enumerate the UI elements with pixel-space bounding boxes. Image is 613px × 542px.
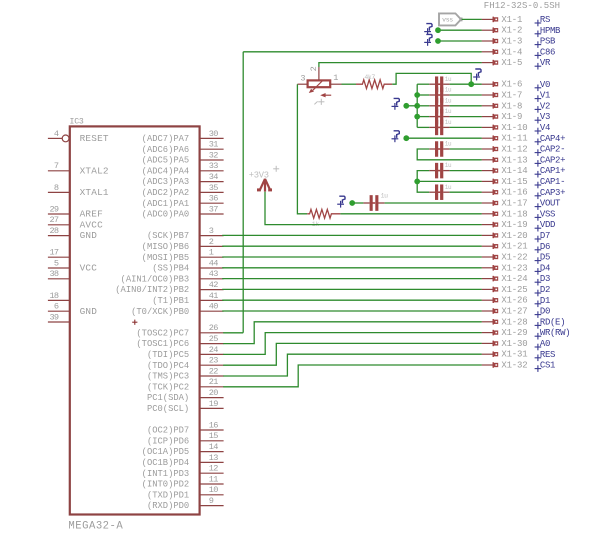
capacitor C8 (CAP3) — [429, 191, 435, 193]
net label CAP4+ on X1-11 — [535, 139, 542, 146]
IC3 right pin 2 (MISO)PB6 — [200, 245, 224, 247]
wire X1-1 RS net — [462, 18, 482, 20]
net label CAP2+ on X1-13 — [535, 160, 542, 167]
wire V2 cap to X1-8 — [450, 105, 482, 107]
svg-text:20: 20 — [209, 388, 218, 398]
svg-text:2: 2 — [309, 66, 319, 71]
capacitor C5 (V4) — [429, 126, 435, 128]
connector pin X1-28 — [482, 319, 499, 325]
net label A0 on X1-30 — [535, 344, 542, 351]
node VOUT wire-end dot — [349, 200, 355, 206]
connector pin X1-20 — [482, 233, 499, 239]
svg-text:(ADC6)PA6: (ADC6)PA6 — [142, 145, 190, 155]
wire bus stub with label — [406, 105, 417, 107]
pot pin 3 — [297, 83, 307, 85]
wire V4 cap to X1-10 — [450, 126, 482, 128]
svg-text:D0: D0 — [540, 307, 550, 317]
svg-text:1u: 1u — [445, 87, 452, 94]
svg-text:(RXD)PD0: (RXD)PD0 — [147, 501, 189, 511]
connector pin X1-1 — [482, 17, 499, 23]
wire cap C5 left lead — [417, 126, 429, 128]
wire CAP3+ to X1-16 — [450, 191, 482, 193]
svg-text:RS: RS — [540, 15, 550, 25]
svg-text:(MISO)PB6: (MISO)PB6 — [142, 242, 190, 252]
net label V4 on X1-10 — [535, 128, 542, 135]
svg-text:(ADC3)PA3: (ADC3)PA3 — [142, 177, 190, 187]
svg-text:23: 23 — [209, 356, 218, 366]
connector pin X1-4 — [482, 49, 499, 55]
svg-text:21: 21 — [209, 377, 218, 387]
net label D2 on X1-25 — [535, 290, 542, 297]
wire C86 to X1-4 — [243, 51, 482, 53]
svg-text:+3V3: +3V3 — [249, 170, 269, 180]
connector pin X1-22 — [482, 254, 499, 260]
svg-text:22: 22 — [209, 366, 218, 376]
svg-text:CAP2+: CAP2+ — [540, 155, 565, 165]
svg-text:A0: A0 — [540, 339, 550, 349]
svg-text:D2: D2 — [540, 285, 550, 295]
IC3 left pin 5 VCC — [48, 267, 70, 269]
net label V2 on X1-8 — [535, 106, 542, 113]
pot gray origin cross — [314, 99, 324, 105]
IC3 right pin 33 (ADC4)PA4 — [200, 170, 224, 172]
svg-text:15: 15 — [209, 431, 218, 441]
svg-text:39: 39 — [49, 312, 58, 322]
connector pin X1-3 — [482, 38, 499, 44]
svg-text:VCC: VCC — [80, 263, 98, 274]
svg-text:42: 42 — [209, 280, 218, 290]
svg-text:IC3: IC3 — [70, 117, 84, 126]
svg-text:36: 36 — [209, 194, 218, 204]
capacitor C4 (V3) — [429, 116, 435, 118]
svg-text:VSS: VSS — [540, 209, 555, 219]
supply symbol +3V3 — [260, 179, 271, 192]
wire D0 PB0 to X1-27 — [222, 310, 482, 312]
wire cap C4 left lead — [417, 116, 429, 118]
net label CAP1+ on X1-14 — [535, 171, 542, 178]
connector pin X1-32 — [482, 362, 499, 368]
IC3 right pin 34 (ADC3)PA3 — [200, 181, 224, 183]
svg-text:37: 37 — [209, 204, 218, 214]
IC3 left pin 7 XTAL2 — [48, 170, 70, 172]
IC3 left pin 6 GND — [48, 310, 70, 312]
svg-text:X1-18: X1-18 — [501, 209, 527, 219]
IC3 right pin 12 (INT1)PD3 — [200, 472, 224, 474]
svg-text:1u: 1u — [445, 97, 452, 104]
IC U1 MEGA32-A body — [70, 126, 200, 514]
svg-text:43: 43 — [209, 269, 218, 279]
IC3 right pin 20 PC1(SDA) — [200, 397, 224, 399]
pot adjust arrow — [323, 94, 331, 96]
net label D3 on X1-24 — [535, 279, 542, 286]
wire V1 cap to X1-7 — [450, 94, 482, 96]
wire D6 PB6 to X1-21 — [222, 245, 482, 247]
svg-text:10: 10 — [209, 485, 218, 495]
svg-text:1u: 1u — [445, 108, 452, 115]
svg-text:D3: D3 — [540, 274, 550, 284]
net label CS1 on X1-32 — [535, 365, 542, 372]
connector pin X1-27 — [482, 308, 499, 314]
svg-text:4: 4 — [54, 129, 59, 139]
svg-text:D7: D7 — [540, 231, 550, 241]
svg-text:(ADC0)PA0: (ADC0)PA0 — [142, 210, 190, 220]
wire CAP1+ to X1-14 — [450, 170, 482, 172]
svg-text:2: 2 — [209, 237, 214, 247]
svg-text:X1-32: X1-32 — [501, 361, 527, 371]
svg-text:(OC1B)PD4: (OC1B)PD4 — [142, 458, 190, 468]
wire CAP2- to X1-12 — [450, 148, 482, 150]
IC3 right pin 25 (TOSC1)PC6 — [200, 343, 224, 345]
IC3 right pin 41 (T1)PB1 — [200, 299, 224, 301]
svg-text:AREF: AREF — [80, 209, 103, 220]
wire VDD +3V3 to X1-19 — [265, 192, 482, 225]
svg-text:X1-15: X1-15 — [501, 177, 527, 187]
svg-text:38: 38 — [49, 269, 58, 279]
svg-text:CAP1-: CAP1- — [540, 177, 565, 187]
svg-text:(ADC1)PA1: (ADC1)PA1 — [142, 199, 190, 209]
connector pin X1-7 — [482, 92, 499, 98]
wire cap C2 left lead — [417, 94, 429, 96]
IC3 left pin 8 XTAL1 — [48, 191, 70, 193]
net label D5 on X1-22 — [535, 257, 542, 264]
svg-text:12: 12 — [209, 464, 218, 474]
IC3 right pin 15 (ICP)PD6 — [200, 440, 224, 442]
IC3 right pin 35 (ADC2)PA2 — [200, 191, 224, 193]
svg-text:X1-8: X1-8 — [501, 101, 522, 111]
connector pin X1-12 — [482, 146, 499, 152]
wire R1 to V0 node bypass — [392, 73, 471, 84]
svg-text:31: 31 — [209, 140, 218, 150]
svg-text:1u: 1u — [445, 141, 452, 148]
IC3 right pin 23 (TDO)PC4 — [200, 364, 224, 366]
svg-text:1: 1 — [333, 73, 338, 83]
svg-text:3: 3 — [209, 226, 214, 236]
svg-text:26: 26 — [209, 323, 218, 333]
wire pot pin1 to R1 — [342, 83, 357, 85]
label ? on PSB — [424, 39, 431, 46]
svg-text:(AIN1/OC0)PB3: (AIN1/OC0)PB3 — [121, 274, 190, 284]
wire cap C3 left lead — [417, 105, 429, 107]
IC3 right pin 3 (SCK)PB7 — [200, 235, 224, 237]
svg-text:PC1(SDA): PC1(SDA) — [147, 393, 189, 403]
connector pin X1-25 — [482, 287, 499, 293]
node V0 junction — [468, 81, 474, 87]
net label VSS on X1-18 — [535, 214, 542, 221]
connector pin X1-11 — [482, 135, 499, 141]
capacitor C2 (V1) — [429, 94, 435, 96]
svg-text:41: 41 — [209, 291, 218, 301]
svg-text:V3: V3 — [540, 112, 550, 122]
wire V3 cap to X1-9 — [450, 116, 482, 118]
wire D3 PB3 to X1-24 — [222, 278, 482, 280]
connector pin X1-13 — [482, 157, 499, 163]
label ? on HPMB — [424, 28, 431, 35]
wire CAP3 elbow up to CAP1- row — [417, 181, 429, 192]
IC3 right pin 36 (ADC1)PA1 — [200, 202, 224, 204]
capacitor C7 (CAP1) — [429, 170, 435, 172]
svg-text:33: 33 — [209, 161, 218, 171]
svg-text:VOUT: VOUT — [540, 199, 561, 209]
connector pin X1-5 — [482, 60, 499, 66]
svg-text:FH12-32S-0.5SH: FH12-32S-0.5SH — [484, 1, 560, 11]
svg-text:PSB: PSB — [540, 37, 556, 47]
IC3 right pin 42 (AIN0/INT2)PB2 — [200, 289, 224, 291]
svg-text:RES: RES — [540, 350, 555, 360]
svg-text:D4: D4 — [540, 263, 550, 273]
connector pin X1-9 — [482, 114, 499, 120]
capacitor C1 (V0) — [429, 83, 435, 85]
IC3 left pin 27 AVCC — [48, 224, 70, 226]
svg-text:X1-3: X1-3 — [501, 37, 522, 47]
svg-text:X1-10: X1-10 — [501, 123, 527, 133]
net label CAP2- on X1-12 — [535, 149, 542, 156]
svg-text:XTAL2: XTAL2 — [80, 165, 109, 176]
svg-text:VDD: VDD — [540, 220, 555, 230]
svg-text:(TDI)PC5: (TDI)PC5 — [147, 350, 189, 360]
wire PC4 pin to X1-30 — [223, 343, 482, 365]
IC3 left pin 4 RESET — [48, 137, 62, 139]
svg-text:1u: 1u — [445, 119, 452, 126]
svg-text:X1-19: X1-19 — [501, 220, 527, 230]
net label D4 on X1-23 — [535, 268, 542, 275]
svg-text:CAP1+: CAP1+ — [540, 166, 565, 176]
svg-text:40: 40 — [209, 302, 218, 312]
wire CAP2+ elbow to X1-13 — [417, 149, 482, 160]
IC3 right pin 22 (TMS)PC3 — [200, 375, 224, 377]
connector pin X1-29 — [482, 330, 499, 336]
svg-text:(TDO)PC4: (TDO)PC4 — [147, 361, 189, 371]
svg-text:9: 9 — [209, 496, 214, 506]
svg-text:(TMS)PC3: (TMS)PC3 — [147, 372, 189, 382]
svg-text:1u: 1u — [445, 76, 452, 83]
svg-text:HPMB: HPMB — [540, 26, 561, 36]
svg-text:(INT1)PD3: (INT1)PD3 — [142, 469, 190, 479]
svg-text:6: 6 — [54, 302, 59, 312]
wire net PSB stub — [438, 40, 482, 42]
connector pin X1-23 — [482, 265, 499, 271]
net label C86 on X1-4 — [535, 52, 542, 59]
svg-text:4k7: 4k7 — [364, 74, 375, 81]
net label D6 on X1-21 — [535, 247, 542, 254]
wire VOUT cap to X1-17 — [385, 202, 482, 204]
svg-text:CS1: CS1 — [540, 361, 555, 371]
IC3 right pin 31 (ADC6)PA6 — [200, 148, 224, 150]
IC3 right pin 9 (RXD)PD0 — [200, 505, 224, 507]
connector pin X1-14 — [482, 168, 499, 174]
svg-text:C86: C86 — [540, 47, 555, 57]
svg-text:(ADC7)PA7: (ADC7)PA7 — [142, 134, 190, 144]
svg-text:X1-12: X1-12 — [501, 145, 527, 155]
capacitor C3 (V2) — [429, 105, 435, 107]
net label RS on X1-1 — [535, 20, 542, 27]
svg-text:(MOSI)PB5: (MOSI)PB5 — [142, 253, 190, 263]
node CAP4+ wire-end dot — [403, 135, 409, 141]
svg-text:(T0/XCK)PB0: (T0/XCK)PB0 — [131, 307, 189, 317]
svg-text:27: 27 — [49, 215, 58, 225]
svg-text:V0: V0 — [540, 80, 550, 90]
svg-text:XTAL1: XTAL1 — [80, 187, 109, 198]
net label CAP3+ on X1-16 — [535, 193, 542, 200]
connector pin X1-8 — [482, 103, 499, 109]
IC3 left pin 38 — [48, 278, 70, 280]
net label VDD on X1-19 — [535, 225, 542, 232]
svg-text:X1-21: X1-21 — [501, 242, 527, 252]
wire PC5 pin to X1-29 — [223, 333, 482, 355]
IC3 left pin 28 GND — [48, 235, 70, 237]
svg-text:7: 7 — [54, 161, 59, 171]
IC3 left pin 17 — [48, 256, 70, 258]
wire D7 PB7 to X1-20 — [222, 234, 482, 236]
IC3 origin cross — [132, 320, 137, 325]
net label WR(RW) on X1-29 — [535, 333, 542, 340]
IC3 right pin 16 (OC2)PD7 — [200, 429, 224, 431]
pot pin 2 — [318, 67, 320, 80]
svg-text:1: 1 — [209, 248, 214, 258]
svg-text:32: 32 — [209, 150, 218, 160]
svg-text:29: 29 — [49, 204, 58, 214]
svg-text:D5: D5 — [540, 253, 550, 263]
wire D4 PB4 to X1-23 — [222, 267, 482, 269]
svg-text:1u: 1u — [445, 162, 452, 169]
svg-text:44: 44 — [209, 258, 218, 268]
connector pin X1-31 — [482, 351, 499, 357]
net label VOUT on X1-17 — [535, 203, 542, 210]
svg-text:11: 11 — [209, 474, 218, 484]
IC3 right pin 26 (TOSC2)PC7 — [200, 332, 224, 334]
wire C86 riser — [242, 52, 244, 333]
connector pin X1-16 — [482, 189, 499, 195]
svg-text:D6: D6 — [540, 242, 550, 252]
label ? on V0 node — [473, 74, 480, 81]
wire pot pin3 down to R2 — [297, 84, 307, 214]
net label D7 on X1-20 — [535, 236, 542, 243]
svg-text:V1: V1 — [540, 91, 550, 101]
svg-text:30: 30 — [209, 129, 218, 139]
svg-text:V2: V2 — [540, 101, 550, 111]
svg-text:14: 14 — [209, 442, 218, 452]
connector pin X1-21 — [482, 243, 499, 249]
svg-text:(AIN0/INT2)PB2: (AIN0/INT2)PB2 — [115, 285, 189, 295]
svg-text:X1-29: X1-29 — [501, 328, 527, 338]
connector pin X1-6 — [482, 81, 499, 87]
net label RD(E) on X1-28 — [535, 322, 542, 329]
wire CAP1- elbow to X1-15 — [417, 171, 482, 182]
pot pin 1 — [330, 83, 341, 85]
IC3 right pin 1 (MOSI)PB5 — [200, 256, 224, 258]
IC3 right pin 10 (TXD)PD1 — [200, 494, 224, 496]
svg-text:X1-14: X1-14 — [501, 166, 527, 176]
connector pin X1-15 — [482, 179, 499, 185]
svg-text:RESET: RESET — [80, 133, 109, 144]
svg-text:X1-17: X1-17 — [501, 199, 527, 209]
connector pin X1-24 — [482, 276, 499, 282]
net label HPMB on X1-2 — [535, 31, 542, 38]
net label V1 on X1-7 — [535, 95, 542, 102]
svg-text:AVCC: AVCC — [80, 219, 103, 230]
svg-text:(ICP)PD6: (ICP)PD6 — [147, 436, 189, 446]
IC3 right pin 24 (TDI)PC5 — [200, 353, 224, 355]
svg-text:13: 13 — [209, 453, 218, 463]
net label RES on X1-31 — [535, 355, 542, 362]
IC3 right pin 40 (T0/XCK)PB0 — [200, 310, 224, 312]
connector pin X1-26 — [482, 297, 499, 303]
net label D1 on X1-26 — [535, 301, 542, 308]
svg-text:X1-11: X1-11 — [501, 134, 527, 144]
svg-text:(TXD)PD1: (TXD)PD1 — [147, 490, 189, 500]
svg-text:PC0(SCL): PC0(SCL) — [147, 404, 189, 414]
svg-text:GND: GND — [80, 306, 98, 317]
svg-text:X1-23: X1-23 — [501, 263, 527, 273]
svg-text:CAP3+: CAP3+ — [540, 188, 565, 198]
connector pin X1-2 — [482, 27, 499, 33]
wire CAP4+ stub to X1-11 — [406, 137, 481, 139]
svg-text:X1-20: X1-20 — [501, 231, 527, 241]
svg-text:X1-22: X1-22 — [501, 253, 527, 263]
svg-text:(TCK)PC2: (TCK)PC2 — [147, 382, 189, 392]
svg-text:(ADC2)PA2: (ADC2)PA2 — [142, 188, 190, 198]
svg-text:(SCK)PB7: (SCK)PB7 — [147, 231, 189, 241]
IC3 right pin 37 (ADC0)PA0 — [200, 213, 224, 215]
IC3 right pin 30 (ADC7)PA7 — [200, 137, 224, 139]
wire V0 cap to X1-6 — [450, 83, 482, 85]
label ? on cap bus — [392, 103, 399, 110]
net label CAP1- on X1-15 — [535, 182, 542, 189]
wire PC3 pin to X1-31 — [223, 354, 482, 376]
wire PC7 to riser — [223, 332, 243, 334]
wire VOUT stub from dot — [352, 202, 363, 204]
svg-text:16: 16 — [209, 420, 218, 430]
connector pin X1-18 — [482, 211, 499, 217]
svg-text:25: 25 — [209, 334, 218, 344]
wire PC6 pin to X1-28 — [223, 322, 482, 344]
svg-text:8: 8 — [54, 183, 59, 193]
connector pin X1-17 — [482, 200, 499, 206]
svg-text:X1-31: X1-31 — [501, 350, 527, 360]
wire VR pot wiper to X1-5 — [319, 63, 482, 67]
IC3 right pin 13 (OC1B)PD4 — [200, 461, 224, 463]
svg-text:3: 3 — [300, 73, 305, 83]
wire cap C1 left lead — [417, 83, 429, 85]
IC3 right pin 44 (SS)PB4 — [200, 267, 224, 269]
node PSB wire-end dot — [435, 38, 441, 44]
svg-text:X1-25: X1-25 — [501, 285, 527, 295]
svg-text:34: 34 — [209, 172, 218, 182]
svg-text:V4: V4 — [540, 123, 550, 133]
svg-text:X1-16: X1-16 — [501, 188, 527, 198]
IC3 left pin 18 — [48, 299, 70, 301]
wire D5 PB5 to X1-22 — [222, 256, 482, 258]
svg-text:X1-28: X1-28 — [501, 317, 527, 327]
wire cap bus vertical — [416, 84, 418, 127]
svg-text:(SS)PB4: (SS)PB4 — [152, 264, 189, 274]
svg-text:35: 35 — [209, 183, 218, 193]
svg-text:(ADC5)PA5: (ADC5)PA5 — [142, 156, 190, 166]
IC3 right pin 32 (ADC5)PA5 — [200, 159, 224, 161]
svg-text:GND: GND — [80, 230, 98, 241]
svg-text:18: 18 — [49, 291, 58, 301]
svg-text:X1-4: X1-4 — [501, 47, 522, 57]
svg-text:X1-7: X1-7 — [501, 91, 522, 101]
svg-text:1u: 1u — [381, 192, 389, 199]
connector pin X1-19 — [482, 222, 499, 228]
pot wiper arrow — [313, 81, 322, 90]
svg-text:WR(RW): WR(RW) — [540, 328, 570, 338]
svg-text:(INT0)PD2: (INT0)PD2 — [142, 480, 190, 490]
wire net HPMB stub — [438, 29, 482, 31]
IC3 left pin 39 — [48, 321, 70, 323]
node bus junction V3 row — [414, 114, 420, 120]
svg-text:X1-13: X1-13 — [501, 155, 527, 165]
